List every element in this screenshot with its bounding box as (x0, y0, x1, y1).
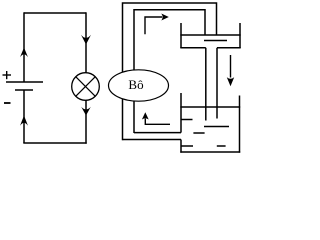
wire left upper (battery + side) (23, 12, 25, 82)
tank B left wall lower (180, 140, 182, 153)
wire bottom (23, 142, 86, 144)
tank A water dash (204, 40, 227, 42)
tank A right wall (239, 23, 241, 48)
tank A bottom right segment (217, 47, 241, 49)
svg-text:Bô: Bô (128, 77, 143, 92)
tank B water surface (180, 106, 240, 108)
battery B1 long plate (+) (6, 81, 43, 83)
pipe outer bottom horizontal to tank B (123, 139, 182, 141)
arrow up on left wire (upper) (20, 48, 28, 58)
drain pipe left line (205, 48, 207, 121)
flow arrow (top, pointing right) (145, 17, 162, 34)
wire right lower (85, 100, 87, 143)
tank A water surface (180, 34, 240, 36)
arrow down on right wire (upper) (81, 35, 91, 45)
pump ellipse (109, 70, 169, 101)
tank B water dash 4 (181, 145, 193, 147)
tank B left wall upper (180, 93, 182, 133)
tank B water dash 2 (204, 126, 229, 128)
arrow down on right wire (below lamp) (81, 107, 91, 116)
wire right upper (85, 12, 87, 73)
tank B bottom (180, 151, 240, 153)
flow arrow (right, pointing down) (230, 55, 232, 78)
wire top of battery loop (24, 12, 86, 14)
wire left lower (23, 90, 25, 143)
drain pipe right line (216, 48, 218, 119)
pipe inner bottom horizontal to tank B (134, 132, 181, 134)
battery B1 short plate (-) (15, 89, 33, 91)
label - (4, 102, 11, 104)
lamp L1 circle (72, 73, 100, 101)
tank B water dash 5 (217, 145, 226, 147)
tank B water dash 3 (193, 132, 204, 134)
flow arrow (bottom left, pointing up) (145, 119, 170, 125)
tank B water dash 1 (181, 119, 193, 121)
tank A bottom left segment (180, 47, 206, 49)
pipe outer line (left vertical, top, right vertical) (123, 3, 217, 140)
pipe inner line (left vertical, top, right vertical) (134, 10, 205, 133)
lamp L1 cross (76, 77, 96, 97)
label + (3, 71, 12, 79)
tank B right wall (239, 96, 241, 153)
arrow up on left wire (lower) (20, 116, 28, 126)
tank A left wall (180, 23, 182, 48)
